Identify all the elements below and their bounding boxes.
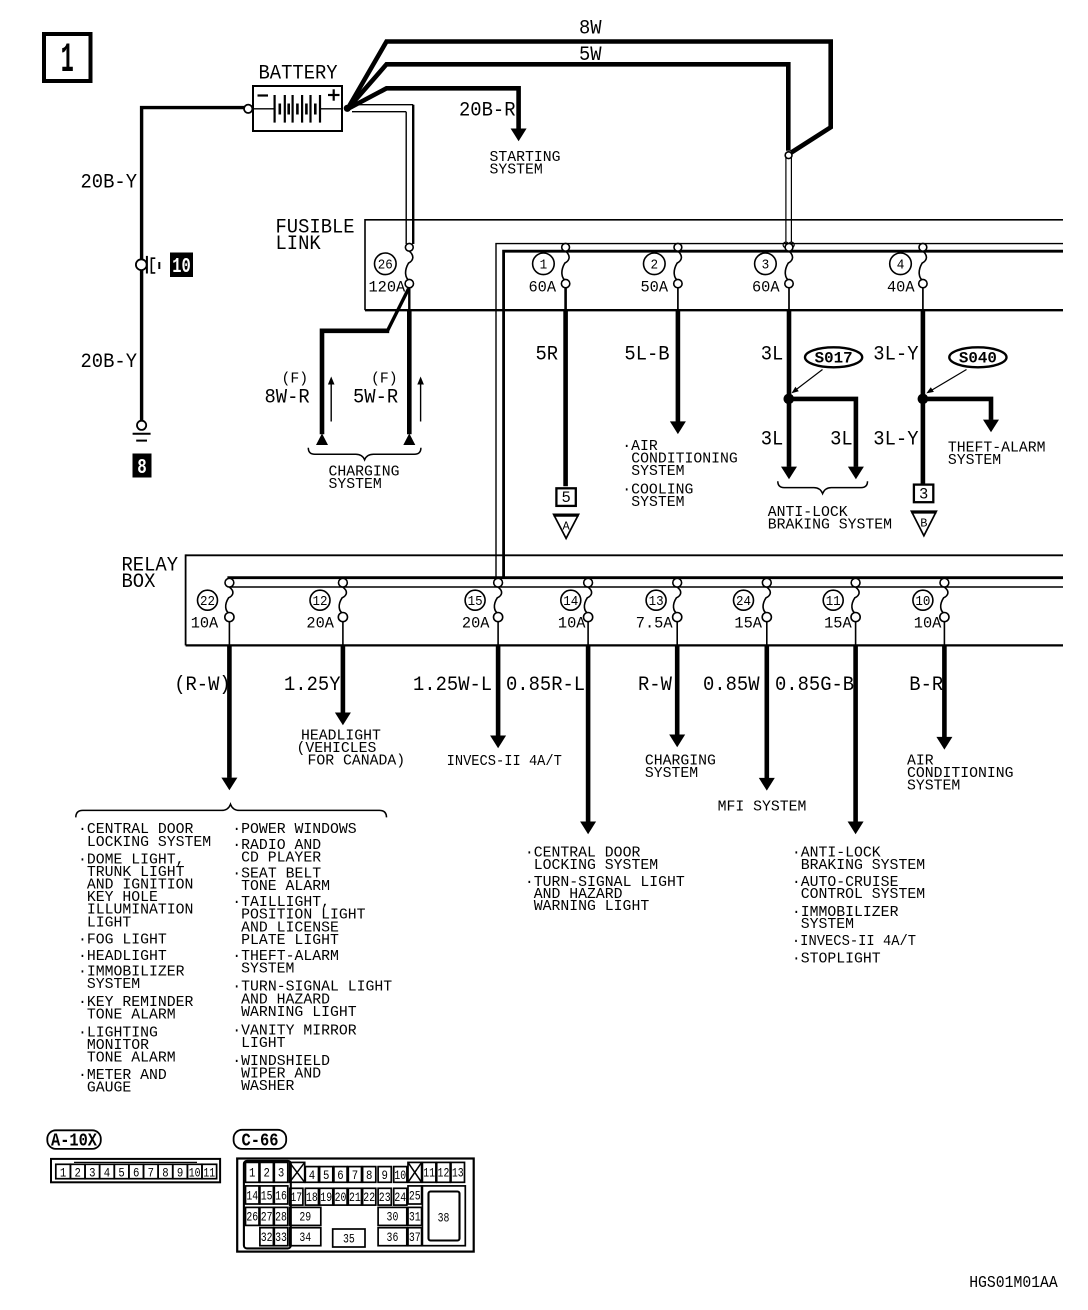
svg-text:3L-Y: 3L-Y xyxy=(873,344,918,367)
svg-text:8: 8 xyxy=(366,1168,372,1183)
svg-text:SYSTEM: SYSTEM xyxy=(329,477,382,493)
svg-text:19: 19 xyxy=(320,1190,332,1205)
in-line connector 10 on 20B-Y wire xyxy=(136,253,193,280)
wire 5L-B fuse 2 to A/C and cooling xyxy=(624,288,686,434)
svg-text:20B-Y: 20B-Y xyxy=(81,351,138,374)
svg-text:HGS01M01AA: HGS01M01AA xyxy=(969,1274,1058,1293)
svg-text:TONE ALARM: TONE ALARM xyxy=(87,1008,176,1024)
svg-text:38: 38 xyxy=(438,1211,450,1226)
fuse 15 20A xyxy=(462,578,503,645)
svg-text:(F): (F) xyxy=(371,372,398,388)
fuse 3 60A xyxy=(752,243,793,296)
svg-text:11: 11 xyxy=(826,594,841,610)
svg-text:22: 22 xyxy=(363,1190,375,1205)
svg-text:MFI SYSTEM: MFI SYSTEM xyxy=(718,800,807,816)
svg-text:14: 14 xyxy=(563,594,578,610)
svg-text:5: 5 xyxy=(561,489,570,507)
svg-text:15: 15 xyxy=(468,594,483,610)
svg-text:7.5A: 7.5A xyxy=(636,615,674,633)
fuse 14 10A xyxy=(558,578,593,645)
wire R-W fuse 22 output xyxy=(174,645,237,790)
wire 8W-R fuse 26 branch to charging system xyxy=(265,289,409,445)
svg-text:9: 9 xyxy=(177,1165,183,1180)
ground 8 xyxy=(133,421,152,480)
svg-text:10A: 10A xyxy=(558,615,586,633)
wire 0.85W fuse 24 to MFI system xyxy=(703,645,806,815)
svg-text:60A: 60A xyxy=(752,278,780,296)
wire R-W fuse 13 to charging system xyxy=(638,645,716,782)
battery B1 xyxy=(244,62,351,131)
svg-text:31: 31 xyxy=(409,1210,421,1225)
svg-text:20: 20 xyxy=(335,1190,347,1205)
svg-text:3: 3 xyxy=(278,1166,284,1181)
charging system brace and label xyxy=(308,448,421,493)
svg-text:BOX: BOX xyxy=(122,571,156,594)
svg-text:10: 10 xyxy=(189,1165,201,1180)
fusible link box xyxy=(276,217,1064,311)
svg-text:12: 12 xyxy=(313,594,328,610)
fuse 2 50A xyxy=(641,243,683,296)
svg-text:30: 30 xyxy=(387,1210,399,1225)
svg-text:1: 1 xyxy=(249,1166,256,1181)
svg-text:5R: 5R xyxy=(536,344,559,367)
svg-text:4: 4 xyxy=(309,1168,316,1183)
wire 3L branch from splice xyxy=(789,399,864,479)
svg-text:0.85G-B: 0.85G-B xyxy=(775,674,854,697)
svg-text:CD PLAYER: CD PLAYER xyxy=(241,851,321,867)
svg-text:20B-Y: 20B-Y xyxy=(81,172,138,195)
svg-text:21: 21 xyxy=(349,1190,361,1205)
svg-text:FOR CANADA): FOR CANADA) xyxy=(308,754,406,770)
svg-text:1: 1 xyxy=(60,1165,67,1180)
svg-text:·HEADLIGHT: ·HEADLIGHT xyxy=(78,949,167,965)
svg-text:BATTERY: BATTERY xyxy=(259,62,338,85)
wire 1.25W-L fuse 15 to INVECS-II xyxy=(413,645,562,770)
connector C-66 pin view xyxy=(237,1159,474,1252)
svg-text:17: 17 xyxy=(290,1190,302,1205)
fuse 22 10A xyxy=(191,578,234,645)
svg-text:13: 13 xyxy=(649,594,664,610)
svg-text:120A: 120A xyxy=(369,278,407,296)
connector box 3 xyxy=(914,485,933,504)
fuse 26 120A xyxy=(369,243,414,296)
svg-text:BRAKING SYSTEM: BRAKING SYSTEM xyxy=(801,858,925,874)
svg-text:(F): (F) xyxy=(282,372,309,388)
wire 0.85R-L fuse 14 output xyxy=(506,645,596,834)
wire 3L fuse 3 to anti-lock braking xyxy=(761,288,797,480)
svg-text:36: 36 xyxy=(387,1230,399,1245)
svg-text:26: 26 xyxy=(378,258,393,274)
svg-text:0.85W: 0.85W xyxy=(703,674,760,697)
svg-text:8: 8 xyxy=(162,1165,168,1180)
fuse 1 60A xyxy=(529,243,570,296)
svg-text:3: 3 xyxy=(919,486,928,504)
svg-text:8W-R: 8W-R xyxy=(265,386,310,409)
brace over fuse 22 system list xyxy=(76,804,387,817)
svg-text:24: 24 xyxy=(736,594,751,610)
wire 5W-R fuse 26 to charging system xyxy=(353,288,424,445)
svg-text:PLATE LIGHT: PLATE LIGHT xyxy=(241,933,339,949)
svg-text:1: 1 xyxy=(540,258,548,274)
node splice S040 xyxy=(918,347,1007,404)
svg-text:2: 2 xyxy=(75,1165,81,1180)
svg-text:4: 4 xyxy=(897,258,905,274)
svg-text:29: 29 xyxy=(299,1210,311,1225)
svg-text:33: 33 xyxy=(275,1230,287,1245)
svg-text:20A: 20A xyxy=(462,615,490,633)
fuse 10 10A xyxy=(913,578,949,645)
svg-text:·STOPLIGHT: ·STOPLIGHT xyxy=(792,952,881,968)
svg-text:32: 32 xyxy=(261,1230,273,1245)
svg-text:16: 16 xyxy=(275,1188,287,1203)
svg-text:SYSTEM: SYSTEM xyxy=(631,495,684,511)
svg-text:26: 26 xyxy=(246,1210,258,1225)
svg-text:18: 18 xyxy=(306,1190,318,1205)
fusible link bus bar double line xyxy=(496,244,1063,587)
svg-text:14: 14 xyxy=(246,1188,258,1203)
label fuse 22 system list column 2 xyxy=(232,822,392,1095)
svg-text:28: 28 xyxy=(275,1210,287,1225)
svg-text:3L: 3L xyxy=(761,344,784,367)
svg-text:BRAKING SYSTEM: BRAKING SYSTEM xyxy=(768,518,892,534)
svg-text:LOCKING SYSTEM: LOCKING SYSTEM xyxy=(534,858,658,874)
off-page triangle A xyxy=(554,514,579,538)
svg-text:22: 22 xyxy=(200,594,215,610)
svg-text:B-R: B-R xyxy=(909,674,943,697)
svg-text:A: A xyxy=(562,520,570,534)
svg-text:3L: 3L xyxy=(830,428,853,451)
svg-text:1.25Y: 1.25Y xyxy=(284,674,341,697)
svg-text:·FOG LIGHT: ·FOG LIGHT xyxy=(78,932,167,948)
svg-text:7: 7 xyxy=(352,1168,358,1183)
svg-text:13: 13 xyxy=(452,1166,464,1181)
svg-text:10: 10 xyxy=(172,256,191,279)
label anti-lock / auto-cruise / immobilizer list xyxy=(792,846,925,968)
node 5W/8W junction above fuse 3 xyxy=(783,152,794,248)
svg-text:SYSTEM: SYSTEM xyxy=(907,778,960,794)
svg-text:37: 37 xyxy=(409,1230,421,1245)
svg-text:5: 5 xyxy=(118,1165,124,1180)
svg-text:0.85R-L: 0.85R-L xyxy=(506,674,585,697)
wire B-R fuse 10 to air conditioning xyxy=(907,645,1014,794)
wire 8W battery to fusible link bus xyxy=(348,18,831,153)
wire 0.85G-B fuse 11 output xyxy=(775,645,864,834)
svg-text:2: 2 xyxy=(651,258,659,274)
svg-text:3L: 3L xyxy=(761,428,784,451)
relay box bus bar double line xyxy=(227,578,1063,587)
svg-text:LOCKING SYSTEM: LOCKING SYSTEM xyxy=(87,835,211,851)
svg-text:40A: 40A xyxy=(887,278,915,296)
svg-text:3: 3 xyxy=(89,1165,95,1180)
svg-text:3L-Y: 3L-Y xyxy=(873,428,918,451)
svg-text:SYSTEM: SYSTEM xyxy=(631,464,684,480)
svg-text:34: 34 xyxy=(299,1230,311,1245)
svg-text:35: 35 xyxy=(343,1231,355,1246)
svg-text:7: 7 xyxy=(148,1165,154,1180)
svg-text:10: 10 xyxy=(394,1168,406,1183)
connector box 5 xyxy=(556,488,575,507)
svg-text:SYSTEM: SYSTEM xyxy=(645,766,698,782)
svg-text:50A: 50A xyxy=(641,278,669,296)
fuse 24 15A xyxy=(734,578,772,645)
label air conditioning / cooling system xyxy=(622,439,737,511)
svg-text:1.25W-L: 1.25W-L xyxy=(413,674,492,697)
svg-text:·POWER WINDOWS: ·POWER WINDOWS xyxy=(232,822,356,838)
svg-text:20A: 20A xyxy=(306,615,334,633)
wire battery to fuse 26 double line xyxy=(352,105,413,244)
wire 5R fuse 1 to connector 5 xyxy=(536,288,566,487)
label central door locking / turn-signal list xyxy=(525,845,685,915)
wire 3L-Y branch to theft-alarm xyxy=(923,399,1046,469)
anti-lock braking system brace and label xyxy=(768,481,892,533)
svg-text:8W: 8W xyxy=(579,18,602,41)
label fuse 22 system list column 1 xyxy=(78,822,211,1097)
svg-text:R-W: R-W xyxy=(638,674,672,697)
svg-text:S017: S017 xyxy=(815,350,853,368)
wire 5W battery to fusible link bus xyxy=(348,44,789,151)
svg-text:60A: 60A xyxy=(529,278,557,296)
svg-text:2: 2 xyxy=(263,1166,269,1181)
svg-text:S040: S040 xyxy=(959,350,997,368)
svg-text:WASHER: WASHER xyxy=(241,1079,294,1095)
fuse 12 20A xyxy=(306,578,347,645)
svg-text:5W: 5W xyxy=(579,44,602,67)
svg-text:11: 11 xyxy=(423,1166,435,1181)
wire 3L-Y fuse 4 to connector 3 xyxy=(873,288,923,485)
relay box xyxy=(122,554,1064,645)
svg-text:6: 6 xyxy=(337,1168,343,1183)
svg-text:12: 12 xyxy=(438,1166,450,1181)
wire 20B-Y battery negative to ground xyxy=(81,108,245,421)
svg-text:15A: 15A xyxy=(734,615,762,633)
svg-text:SYSTEM: SYSTEM xyxy=(241,962,294,978)
svg-text:TONE ALARM: TONE ALARM xyxy=(241,879,330,895)
svg-text:24: 24 xyxy=(394,1190,406,1205)
svg-text:·INVECS-II 4A/T: ·INVECS-II 4A/T xyxy=(792,934,916,950)
fuse 4 40A xyxy=(887,243,927,296)
svg-text:23: 23 xyxy=(379,1190,391,1205)
svg-text:15A: 15A xyxy=(824,615,852,633)
svg-text:B: B xyxy=(920,516,927,530)
connector label A-10X xyxy=(47,1130,101,1151)
svg-text:LIGHT: LIGHT xyxy=(87,915,132,931)
svg-text:CONTROL SYSTEM: CONTROL SYSTEM xyxy=(801,887,925,903)
connector A-10X pin view xyxy=(51,1159,220,1182)
svg-text:A-10X: A-10X xyxy=(51,1131,97,1151)
svg-text:20B-R: 20B-R xyxy=(459,99,516,122)
svg-text:4: 4 xyxy=(104,1165,111,1180)
svg-text:SYSTEM: SYSTEM xyxy=(948,453,1001,469)
svg-text:10A: 10A xyxy=(914,615,942,633)
wire 1.25Y fuse 12 to headlight xyxy=(284,645,405,769)
svg-text:8: 8 xyxy=(137,457,147,480)
svg-text:LINK: LINK xyxy=(276,233,322,256)
svg-text:5: 5 xyxy=(323,1168,329,1183)
svg-text:SYSTEM: SYSTEM xyxy=(87,977,140,993)
svg-text:27: 27 xyxy=(261,1210,273,1225)
svg-text:GAUGE: GAUGE xyxy=(87,1081,132,1097)
connector label C-66 xyxy=(234,1130,287,1152)
svg-text:5L-B: 5L-B xyxy=(624,344,669,367)
wire 20B-R to starting system xyxy=(348,88,561,178)
svg-text:1: 1 xyxy=(61,36,74,84)
svg-text:15: 15 xyxy=(261,1188,273,1203)
svg-text:6: 6 xyxy=(133,1165,139,1180)
svg-text:INVECS-II 4A/T: INVECS-II 4A/T xyxy=(447,754,562,770)
svg-text:C-66: C-66 xyxy=(242,1131,279,1151)
page number box 1 xyxy=(44,34,91,84)
svg-text:5W-R: 5W-R xyxy=(353,386,398,409)
svg-text:SYSTEM: SYSTEM xyxy=(801,917,854,933)
drawing code HGS01M01AA xyxy=(969,1274,1058,1293)
svg-text:10: 10 xyxy=(915,594,930,610)
fuse 11 15A xyxy=(823,578,860,645)
svg-text:3: 3 xyxy=(762,258,770,274)
svg-text:10A: 10A xyxy=(191,615,219,633)
fuse 13 7.5A xyxy=(636,578,682,645)
svg-text:25: 25 xyxy=(409,1188,421,1203)
svg-text:(R-W): (R-W) xyxy=(174,674,231,697)
node splice S017 xyxy=(784,347,863,404)
svg-text:SYSTEM: SYSTEM xyxy=(490,163,543,179)
svg-text:WARNING LIGHT: WARNING LIGHT xyxy=(534,899,650,915)
svg-text:WARNING LIGHT: WARNING LIGHT xyxy=(241,1005,357,1021)
off-page triangle B xyxy=(911,511,936,536)
svg-text:9: 9 xyxy=(382,1168,388,1183)
svg-text:11: 11 xyxy=(203,1165,215,1180)
svg-text:LIGHT: LIGHT xyxy=(241,1036,286,1052)
svg-text:TONE ALARM: TONE ALARM xyxy=(87,1051,176,1067)
